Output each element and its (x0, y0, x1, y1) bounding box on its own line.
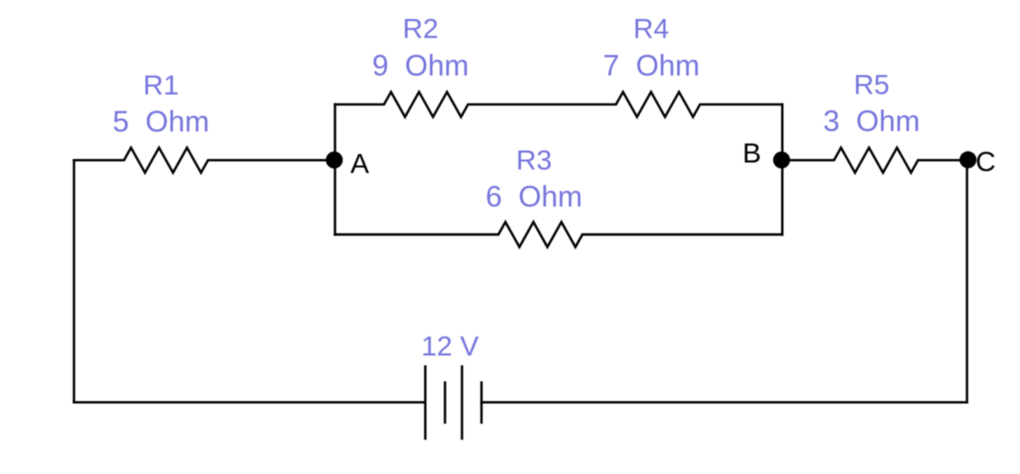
svg-text:9 Ohm: 9 Ohm (372, 50, 469, 83)
svg-text:12 V: 12 V (421, 331, 479, 362)
svg-text:R5: R5 (854, 69, 890, 100)
svg-text:R1: R1 (143, 70, 179, 101)
svg-text:R2: R2 (403, 13, 439, 44)
svg-text:B: B (743, 138, 762, 169)
svg-text:C: C (976, 146, 996, 177)
svg-text:R3: R3 (516, 145, 552, 176)
svg-text:A: A (350, 148, 369, 179)
svg-text:5 Ohm: 5 Ohm (113, 106, 210, 139)
svg-text:R4: R4 (633, 13, 669, 44)
svg-text:6 Ohm: 6 Ohm (486, 181, 583, 214)
svg-text:3 Ohm: 3 Ohm (823, 105, 920, 138)
svg-text:7 Ohm: 7 Ohm (603, 50, 700, 83)
